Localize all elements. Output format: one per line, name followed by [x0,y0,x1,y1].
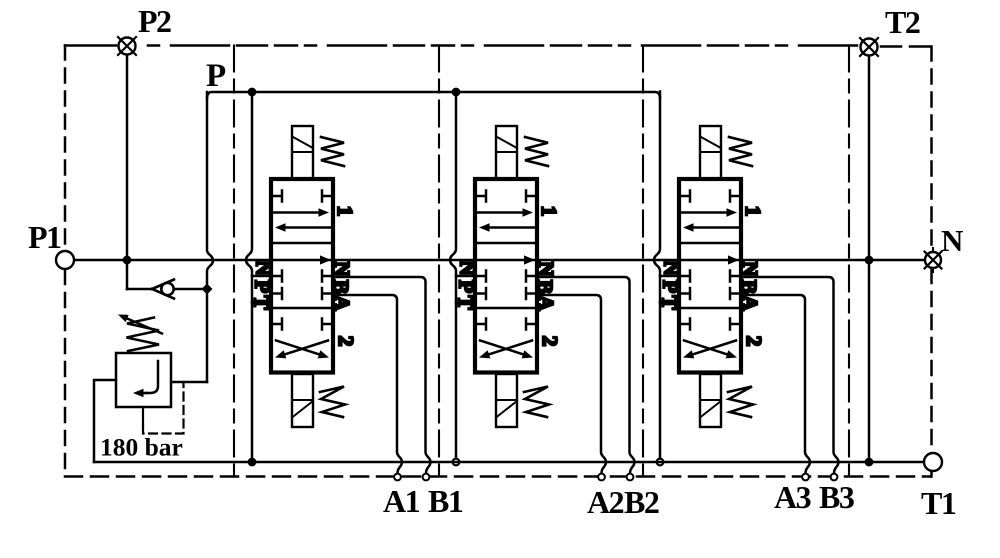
svg-text:A2: A2 [587,484,624,520]
wire P/T feed vertical for section 1 (hops over N line) [246,92,252,463]
valve V3 position-1 blocked port stubs [679,191,741,202]
wire work port B of valve 3 down to B3 (hops tank line) [741,277,839,473]
valve V3 bottom actuator box [700,374,721,427]
wire T port stub into valve 1 [252,301,271,304]
label 2 (position 2) [334,336,358,347]
wire work port A of valve 2 down to A2 (hops tank line) [537,295,606,473]
svg-text:N: N [252,260,276,275]
port N (plugged, circle with X) [925,248,942,272]
wire P2 riser down to check valve line [126,55,129,289]
wire tank gallery to T1 [94,461,924,464]
port letter N (right) [534,261,558,276]
svg-text:2: 2 [538,336,562,347]
port letter N (left) [660,260,684,275]
port letter P (left) [455,280,479,293]
svg-text:P2: P2 [138,3,171,39]
svg-text:N: N [660,260,684,275]
junction ring: T line of section 2 on tank gallery [453,459,460,466]
port letter P (left) [251,280,275,293]
svg-text:N: N [456,260,480,275]
work port A3 circle [802,474,809,481]
enclosure border right edge (dashed) [930,47,933,477]
port P2 (plugged, circle with X) [118,37,136,55]
work port B3 circle [831,474,838,481]
svg-text:2: 2 [742,336,766,347]
valve V2 top actuator box [496,126,517,179]
junction dot P2 riser on main line [123,256,132,265]
relief valve RV1 body [116,353,171,407]
wire main neutral line P1 to N [74,259,925,262]
svg-text:T1: T1 [921,485,956,521]
svg-text:A3: A3 [774,479,811,515]
svg-text:B3: B3 [819,479,854,515]
valve V1 bottom return spring [320,387,345,418]
wire relief valve inlet [171,381,207,384]
valve V1 neutral blocked port stubs [271,271,333,300]
wire P port stub into valve 3 [660,275,679,278]
port letter A (right) [534,295,558,311]
port letter B (right) [737,280,761,294]
svg-text:P: P [206,58,226,94]
svg-text:B: B [533,280,557,294]
wire pressure gallery P (horizontal) [207,92,660,98]
port letter P (left) [659,280,683,293]
wire T port stub into valve 2 [456,301,475,304]
svg-text:N: N [534,261,558,276]
section divider (V2/V3) dashed [642,46,644,477]
label 1 (position 1) [537,206,561,217]
valve V3 position-1 flow arrows [682,208,738,232]
svg-text:1: 1 [537,206,561,217]
enclosure border left edge (dashed) [64,46,67,477]
port letter N (left) [456,260,480,275]
valve V2 position-1 flow arrows [478,208,534,232]
valve V1 top return spring [321,137,344,166]
wire relief valve drain to tank gallery [94,380,116,462]
valve V2 neutral blocked port stubs [475,271,537,300]
svg-text:A: A [330,295,354,311]
wire T port stub into valve 3 [660,301,679,304]
section divider (V3/outlet) dashed [848,46,850,477]
svg-text:A: A [534,295,558,311]
svg-text:P: P [659,280,683,293]
port letter A (right) [738,295,762,311]
wire T2 riser down to tank gallery [868,56,871,462]
wire work port A of valve 1 down to A1 (hops tank line) [333,295,402,473]
valve V2 spool body (3 positions) [475,179,537,373]
wire work port B of valve 2 down to B2 (hops tank line) [537,277,635,473]
valve V2 position-1 blocked port stubs [475,191,537,202]
wire P gallery riser (hops over N line) [207,92,213,382]
port letter T (left) [658,295,682,309]
valve V2 bottom actuator box [496,374,517,427]
svg-text:2: 2 [334,336,358,347]
svg-text:A1: A1 [383,483,420,519]
relief valve pilot line (dashed) [143,384,184,434]
wire work port B of valve 1 down to B1 (hops tank line) [333,277,431,473]
svg-text:P: P [455,280,479,293]
valve V1 position-2 crossed flow arrows [275,341,329,359]
svg-text:180 bar: 180 bar [100,433,183,462]
valve V1 position-1 flow arrows [274,208,330,232]
junction dot section 2 feed on P gallery [452,88,461,97]
label 1 (position 1) [741,206,765,217]
valve V1 spool body (3 positions) [271,179,333,373]
svg-text:N: N [941,223,963,258]
valve V3 neutral blocked port stubs [679,271,741,300]
svg-text:1: 1 [741,206,765,217]
port letter N (left) [252,260,276,275]
port letter B (right) [329,280,353,294]
valve V3 position-2 blocked port stubs [679,319,741,330]
svg-text:B: B [737,280,761,294]
junction ring: T line of section 3 on tank gallery [657,459,664,466]
port letter T (left) [250,295,274,309]
valve V1 top actuator box [292,126,313,179]
valve V2 position-2 crossed flow arrows [479,341,533,359]
check valve CV1 (seat and ball) [152,280,174,299]
relief valve RV1 internal flow arrow [133,361,158,397]
port letter B (right) [533,280,557,294]
work port A1 circle [394,474,401,481]
svg-text:B: B [329,280,353,294]
svg-text:P: P [251,280,275,293]
svg-text:1: 1 [333,206,357,217]
wire P/T feed vertical for section 3 (hops over N line) [654,92,660,463]
work port B2 circle [627,474,634,481]
work port A2 circle [598,474,605,481]
port T2 (plugged, circle with X) [860,38,878,56]
valve V2 top return spring [525,137,548,166]
relief valve RV1 adjustment arrow [118,315,162,334]
port P1 (inlet circle) [56,251,74,269]
wire P/T feed vertical for section 2 (hops over N line) [450,92,456,463]
svg-text:A: A [738,295,762,311]
port letter N (right) [738,261,762,276]
junction dot T2 riser on main line [865,256,874,265]
work port B1 circle [423,474,430,481]
wire work port A of valve 3 down to A3 (hops tank line) [741,295,810,473]
valve V1 bottom actuator box [292,374,313,427]
svg-text:P1: P1 [28,219,61,255]
port letter A (right) [330,295,354,311]
valve V1 position-1 blocked port stubs [271,191,333,202]
valve V3 position-2 crossed flow arrows [683,341,737,359]
valve V3 neutral bypass arrow [728,255,739,264]
svg-text:N: N [330,261,354,276]
junction diamond at P riser / check valve [202,284,213,295]
junction dot T2 riser on tank gallery [865,458,874,467]
relief valve RV1 spring [127,318,160,352]
wire P port stub into valve 2 [456,275,475,278]
valve V3 top actuator box [700,126,721,179]
wire P port stub into valve 1 [252,275,271,278]
svg-text:T2: T2 [885,4,920,40]
wire check valve to P gallery riser [174,288,202,291]
valve V2 position-2 blocked port stubs [475,319,537,330]
svg-text:N: N [738,261,762,276]
valve V3 top return spring [729,137,752,166]
junction dot section 1 feed on P gallery [248,88,257,97]
label 2 (position 2) [538,336,562,347]
port letter T (left) [454,295,478,309]
section divider (V1/V2) dashed [438,46,440,477]
wire pump inlet line P1 junction to check valve [127,288,151,291]
enclosure border top edge (dashed) [65,46,931,47]
label 1 (position 1) [333,206,357,217]
section divider (inlet/V1) dashed [233,46,235,477]
port letter N (right) [330,261,354,276]
enclosure border bottom edge (dashed) [65,475,931,478]
svg-text:B1: B1 [428,483,463,519]
valve V3 bottom return spring [728,387,753,418]
label 2 (position 2) [742,336,766,347]
valve V2 neutral bypass arrow [524,255,535,264]
port T1 (outlet circle) [924,453,942,471]
junction dot: T line of section 1 on tank gallery [248,458,257,467]
svg-text:B2: B2 [624,484,659,520]
valve V1 neutral bypass arrow [320,255,331,264]
valve V2 bottom return spring [524,387,549,418]
valve V1 position-2 blocked port stubs [271,319,333,330]
valve V3 spool body (3 positions) [679,179,741,373]
